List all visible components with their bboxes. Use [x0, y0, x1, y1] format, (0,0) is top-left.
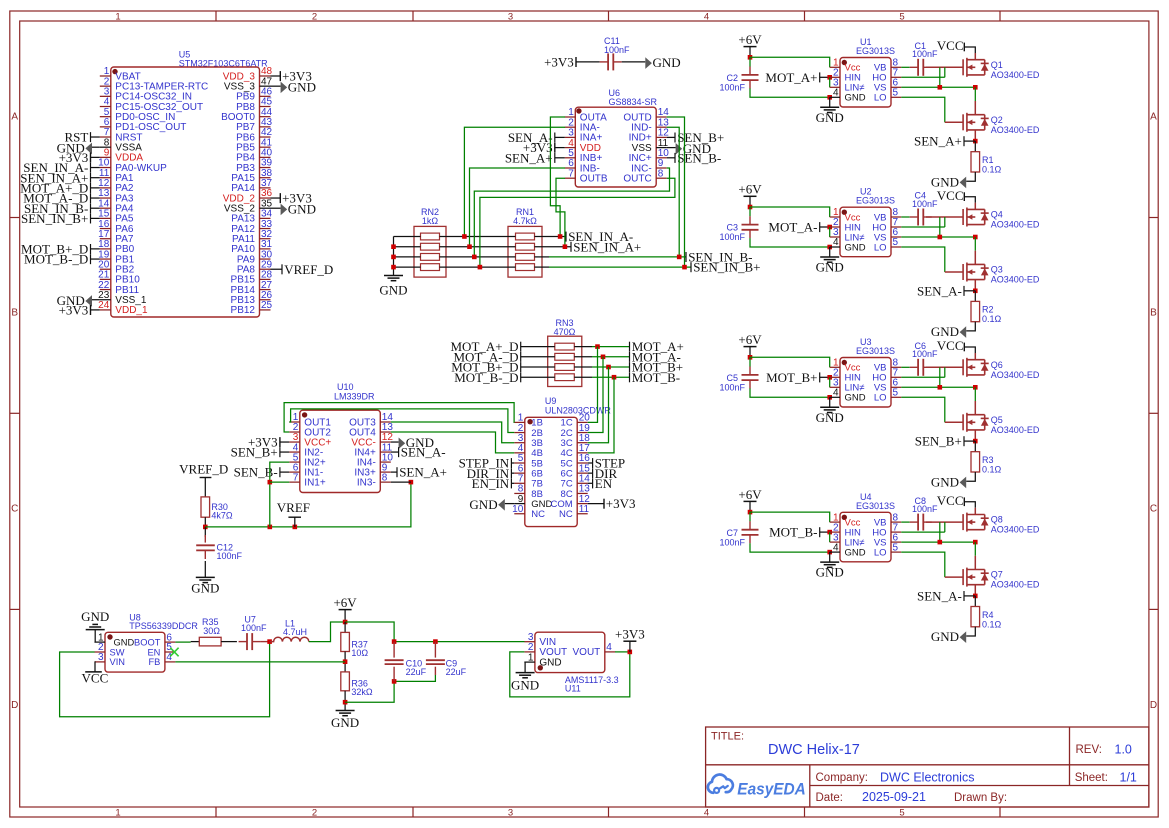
svg-text:100nF: 100nF — [912, 349, 938, 359]
wire FB to divider — [175, 661, 345, 663]
svg-text:24: 24 — [98, 300, 110, 311]
svg-text:4: 4 — [606, 642, 612, 653]
svg-text:NC: NC — [531, 509, 545, 520]
+3V3 flag at U10 pin3 — [280, 441, 289, 443]
ground flag at U9 pin9 — [505, 503, 515, 505]
wires RN3 rows down to U9 1C-4C — [588, 347, 598, 423]
svg-text:AO3400-ED: AO3400-ED — [991, 125, 1040, 135]
wire U10 IN2+/IN1+ to VREF — [270, 462, 290, 527]
net label MOT_B- — [820, 531, 830, 533]
net label SEN_IN_A+ — [570, 242, 572, 252]
svg-text:+6V: +6V — [738, 487, 762, 502]
net label VREF_D at U5 pin29 — [271, 268, 283, 270]
svg-text:SEN_A-: SEN_A- — [917, 283, 962, 298]
svg-text:100nF: 100nF — [912, 504, 938, 514]
wire U6 OUTA to row1 — [550, 117, 565, 237]
svg-text:C3: C3 — [726, 223, 738, 233]
svg-text:VCC: VCC — [937, 338, 964, 353]
wire U6 IND- to row3 — [667, 127, 680, 257]
svg-text:Q1: Q1 — [991, 60, 1003, 70]
junction dots on left bus — [391, 244, 396, 249]
wire VS line — [901, 541, 975, 543]
transistor Q4 AO3400-ED high side — [962, 209, 964, 225]
+3V3 flag at U9 pin12 — [588, 503, 604, 505]
wire U10 IN1+ junction — [270, 481, 290, 483]
transistor Q7 AO3400-ED low side — [962, 569, 964, 585]
svg-text:BOOT: BOOT — [134, 637, 161, 647]
net label SEN_A+ at U6 pin5 — [555, 157, 565, 159]
net label MOT_B-_D at U5 pin19 — [91, 258, 100, 260]
svg-text:SW: SW — [110, 647, 125, 657]
wire VREF_D to R30 — [204, 478, 206, 497]
svg-text:D: D — [1150, 700, 1157, 711]
wire VS line — [901, 386, 975, 388]
svg-text:+6V: +6V — [738, 332, 762, 347]
svg-text:GND: GND — [931, 474, 959, 489]
junction at SW node — [267, 639, 272, 644]
wire U11 pin4 to +3V3 node — [615, 651, 630, 653]
resistor R3 0.1Ohm — [974, 441, 976, 452]
net label SEN_B- at U10 pin6 — [280, 471, 289, 473]
svg-text:Company:: Company: — [816, 772, 868, 784]
net label MOT_A+ — [629, 342, 631, 352]
svg-text:GND: GND — [816, 260, 844, 275]
svg-text:TPS56339DDCR: TPS56339DDCR — [129, 621, 198, 631]
svg-text:TITLE:: TITLE: — [711, 731, 744, 743]
svg-text:Sheet:: Sheet: — [1075, 772, 1108, 784]
svg-text:R3: R3 — [982, 455, 994, 465]
transistor Q8 AO3400-ED high side — [962, 514, 964, 530]
svg-text:7: 7 — [293, 472, 299, 483]
svg-text:22uF: 22uF — [406, 667, 427, 677]
ground flag below R2 — [966, 322, 975, 331]
svg-text:Q8: Q8 — [991, 515, 1003, 525]
svg-text:4.7kΩ: 4.7kΩ — [513, 216, 537, 226]
svg-text:GND: GND — [845, 547, 866, 558]
resistor R36 32kOhm — [341, 672, 350, 691]
wire HO to high-side gate — [901, 226, 945, 228]
svg-text:GND: GND — [931, 629, 959, 644]
net label SEN_IN_A+ at U5 pin11 — [91, 177, 100, 179]
net label SEN_IN_B- — [685, 252, 687, 262]
svg-text:4k7Ω: 4k7Ω — [211, 511, 233, 521]
wire RN3 row to MOT_A+ — [592, 346, 630, 348]
svg-text:8: 8 — [382, 472, 388, 483]
svg-text:GND: GND — [816, 110, 844, 125]
svg-text:SEN_A+: SEN_A+ — [399, 465, 447, 480]
svg-text:+6V: +6V — [738, 182, 762, 197]
svg-text:U11: U11 — [565, 684, 581, 694]
svg-text:VDD_1: VDD_1 — [115, 305, 148, 316]
svg-text:Q4: Q4 — [991, 210, 1003, 220]
svg-text:32kΩ: 32kΩ — [351, 687, 373, 697]
svg-text:AO3400-ED: AO3400-ED — [991, 70, 1040, 80]
svg-text:SEN_IN_A+: SEN_IN_A+ — [573, 239, 641, 254]
resistor R37 10Ohm — [344, 622, 346, 632]
capacitor C12 100nF — [204, 535, 206, 543]
svg-text:D: D — [11, 700, 18, 711]
net label RST — [91, 136, 100, 138]
net label EN at U9 pin14 — [588, 482, 593, 484]
net label SEN_IN_A- at U5 pin10 — [91, 167, 100, 169]
svg-text:VCC: VCC — [937, 38, 964, 53]
net label SEN_A- — [964, 290, 975, 292]
ground below U2 pin4 — [829, 247, 831, 257]
svg-text:C: C — [11, 503, 18, 514]
svg-text:100nF: 100nF — [241, 623, 267, 633]
svg-text:GND: GND — [191, 581, 219, 596]
ground flag at U10 pin12 — [391, 441, 399, 443]
svg-text:LO: LO — [874, 547, 887, 558]
svg-text:U9: U9 — [545, 396, 557, 406]
EasyEDA logo — [708, 775, 733, 793]
svg-text:GND: GND — [288, 201, 316, 216]
wire SEN_IN_B- row3 green — [549, 256, 686, 258]
svg-text:MOT_A-: MOT_A- — [768, 220, 817, 235]
resistor R4 0.1Ohm — [974, 596, 976, 607]
svg-text:3: 3 — [508, 11, 513, 22]
svg-text:100nF: 100nF — [720, 537, 746, 547]
net label SEN_A+ — [964, 140, 975, 142]
svg-text:A: A — [1150, 111, 1157, 122]
wire +6V rail to VIN of U11 — [345, 622, 394, 642]
svg-text:+3V3: +3V3 — [615, 626, 645, 641]
svg-text:3: 3 — [98, 652, 104, 663]
svg-text:100nF: 100nF — [720, 83, 746, 93]
wire VS line — [901, 86, 975, 88]
regulator U11 AMS1117-3.3 — [535, 632, 605, 672]
wire LO to low-side gate — [901, 97, 945, 122]
svg-text:EN: EN — [595, 476, 613, 491]
svg-text:SEN_B+: SEN_B+ — [915, 434, 962, 449]
wire switch node — [974, 387, 976, 401]
svg-text:4: 4 — [704, 807, 709, 818]
wire U10 OUT3 to U9 3B — [391, 422, 515, 443]
svg-text:GND: GND — [845, 242, 866, 253]
svg-text:LO: LO — [874, 393, 887, 404]
svg-text:SEN_B+: SEN_B+ — [231, 445, 278, 460]
ground flag at U5 pin47 — [271, 85, 281, 87]
wire RN3 row to MOT_A- — [592, 356, 630, 358]
svg-text:SEN_A-: SEN_A- — [917, 589, 962, 604]
wire bottom of C10/C9 to ground rail — [345, 681, 394, 702]
svg-text:0.1Ω: 0.1Ω — [982, 314, 1002, 324]
wire MOT_B+ to LIN pin3 — [829, 377, 831, 387]
svg-text:8: 8 — [658, 168, 664, 179]
svg-text:VCC: VCC — [82, 671, 109, 686]
svg-text:4.7uH: 4.7uH — [283, 627, 307, 637]
svg-text:VIN: VIN — [110, 657, 126, 667]
svg-text:+6V: +6V — [738, 32, 762, 47]
svg-text:2: 2 — [312, 11, 317, 22]
wire R30 to VREF node — [204, 517, 206, 527]
svg-text:EG3013S: EG3013S — [856, 501, 895, 511]
svg-text:GND: GND — [114, 637, 135, 647]
wire U6 OUTC to row4 — [480, 178, 675, 267]
transistor Q5 AO3400-ED low side — [962, 414, 964, 430]
svg-text:0.1Ω: 0.1Ω — [982, 165, 1002, 175]
svg-text:Q3: Q3 — [991, 265, 1003, 275]
svg-text:4: 4 — [704, 11, 709, 22]
+3V3 flag at U5 pin24 — [91, 309, 100, 311]
svg-text:100nF: 100nF — [912, 49, 938, 59]
svg-text:VREF: VREF — [277, 500, 310, 515]
svg-text:10Ω: 10Ω — [351, 648, 368, 658]
+3V3 flag at U5 pin36 — [271, 197, 281, 199]
svg-text:2025-09-21: 2025-09-21 — [862, 790, 926, 804]
svg-text:GND: GND — [511, 678, 539, 693]
svg-text:100nF: 100nF — [217, 551, 243, 561]
svg-text:Q2: Q2 — [991, 115, 1003, 125]
net label SEN_B+ at U10 pin4 — [280, 451, 289, 453]
svg-text:VOUT: VOUT — [573, 647, 601, 658]
svg-text:FB: FB — [149, 657, 161, 667]
wire U6 OUTD to row4 — [667, 117, 685, 267]
svg-text:4: 4 — [166, 652, 172, 663]
svg-text:5: 5 — [893, 237, 899, 248]
svg-text:OUTC: OUTC — [623, 174, 651, 185]
svg-text:100nF: 100nF — [720, 232, 746, 242]
wire U6 OUTB to row2 — [556, 178, 565, 247]
svg-text:R2: R2 — [982, 305, 994, 315]
resistor R1 0.1Ohm — [974, 141, 976, 152]
ground flag at U5 pin35 — [271, 207, 281, 209]
net label SEN_IN_A- — [565, 232, 567, 242]
net label STEP at U9 pin16 — [588, 462, 593, 464]
svg-text:EN: EN — [147, 647, 160, 657]
net label SEN_A- at U6 pin3 — [555, 136, 565, 138]
ground at U11 pin1 — [523, 662, 526, 673]
net label MOT_B- — [629, 372, 631, 382]
svg-text:AO3400-ED: AO3400-ED — [991, 275, 1040, 285]
resistor R2 0.1Ohm — [974, 291, 976, 302]
svg-text:22uF: 22uF — [446, 667, 467, 677]
svg-text:U10: U10 — [337, 382, 354, 392]
wire HO to high-side gate — [901, 531, 945, 533]
wire rows into RN2/RN1 — [394, 236, 421, 238]
net label SEN_B+ at U6 pin12 — [667, 136, 675, 138]
svg-text:+6V: +6V — [333, 595, 357, 610]
svg-text:GND: GND — [331, 715, 359, 730]
svg-text:EasyEDA: EasyEDA — [737, 779, 806, 798]
svg-text:5: 5 — [899, 11, 904, 22]
wire LO to low-side gate — [901, 397, 945, 422]
wire U10 OUT2 to U9 1B — [284, 403, 514, 432]
wire U6 INB- to row2 — [470, 168, 566, 247]
wire switch node — [974, 87, 976, 101]
wire LO to low-side gate — [901, 247, 945, 272]
svg-text:GND: GND — [816, 565, 844, 580]
svg-text:Q7: Q7 — [991, 570, 1003, 580]
svg-text:LM339DR: LM339DR — [334, 392, 375, 402]
net label SEN_IN_B+ — [690, 262, 692, 272]
svg-text:DWC Helix-17: DWC Helix-17 — [768, 742, 860, 758]
svg-text:MOT_B-: MOT_B- — [769, 525, 817, 540]
svg-text:30Ω: 30Ω — [203, 626, 220, 636]
net label SEN_IN_B- at U5 pin14 — [91, 207, 100, 209]
transistor Q2 AO3400-ED low side — [962, 114, 964, 130]
net label SEN_A+ at U10 pin9 — [391, 471, 397, 473]
net label MOT_B+_D — [521, 366, 555, 368]
net label EN_IN at U9 pin7 — [511, 482, 514, 484]
net label STEP_IN at U9 pin5 — [511, 462, 514, 464]
svg-text:AO3400-ED: AO3400-ED — [991, 525, 1040, 535]
svg-text:NC: NC — [559, 509, 573, 520]
wire U6 INA- to row1 — [464, 127, 565, 236]
ground below U3 pin4 — [829, 397, 831, 407]
transistor Q6 AO3400-ED high side — [962, 359, 964, 375]
svg-text:C7: C7 — [726, 528, 738, 538]
wire U10 pin8 stub extension — [391, 481, 411, 483]
wire switch node — [974, 542, 976, 556]
svg-text:LO: LO — [874, 93, 887, 104]
net label DIR_IN at U9 pin6 — [511, 472, 514, 474]
wire +6V to U1 Vcc pin1 — [750, 57, 830, 67]
svg-text:IN1+: IN1+ — [304, 477, 326, 488]
wire VREF rail — [205, 482, 411, 527]
net label MOT_A+_D — [521, 346, 555, 348]
svg-text:5: 5 — [899, 807, 904, 818]
svg-text:1: 1 — [528, 652, 534, 663]
ground below C12 — [196, 576, 215, 578]
svg-text:0.1Ω: 0.1Ω — [982, 619, 1002, 629]
svg-text:Drawn By:: Drawn By: — [954, 792, 1007, 804]
svg-text:AO3400-ED: AO3400-ED — [991, 370, 1040, 380]
svg-text:GND: GND — [845, 93, 866, 104]
svg-text:SEN_A+: SEN_A+ — [914, 134, 962, 149]
svg-text:1: 1 — [115, 807, 120, 818]
ground flag at U5 pin23 — [92, 299, 100, 301]
no-connect X at U8 EN — [170, 648, 178, 657]
svg-text:VREF_D: VREF_D — [179, 462, 228, 477]
resistor R30 4k7 — [201, 497, 210, 517]
svg-text:10: 10 — [512, 504, 524, 515]
ground above U8 pin1 — [94, 641, 97, 643]
wire U11 VOUT loop to +3V3 — [510, 652, 630, 697]
svg-text:Q6: Q6 — [991, 360, 1003, 370]
wire switch node — [974, 237, 976, 251]
svg-text:R4: R4 — [982, 610, 994, 620]
wire C12 to ground — [204, 561, 206, 577]
wire MOT_A+ to LIN pin3 — [829, 77, 831, 87]
svg-text:25: 25 — [261, 300, 273, 311]
svg-text:11: 11 — [579, 504, 590, 515]
title block — [706, 727, 1149, 807]
svg-text:GND: GND — [653, 55, 681, 70]
svg-text:GND: GND — [288, 79, 316, 94]
+3V3 flag at U5 pin48 — [271, 75, 281, 77]
ground flag below R1 — [966, 172, 975, 181]
svg-text:C2: C2 — [726, 73, 738, 83]
+3V3 flag at U6 pin4 — [555, 147, 565, 149]
net label MOT_B+ — [629, 362, 631, 372]
+3V3 flag at U5 pin9 — [91, 156, 100, 158]
wire HO to high-side gate — [901, 376, 945, 378]
svg-text:MOT_B+: MOT_B+ — [766, 370, 817, 385]
svg-text:SEN_IN_B+: SEN_IN_B+ — [21, 211, 88, 226]
svg-text:100nF: 100nF — [720, 383, 746, 393]
svg-text:+3V3: +3V3 — [606, 496, 636, 511]
svg-text:A: A — [11, 111, 18, 122]
net label MOT_A- — [820, 226, 830, 228]
svg-text:MOT_B-_D: MOT_B-_D — [24, 252, 88, 267]
net label MOT_A+_D at U5 pin12 — [91, 187, 100, 189]
ground below U1 pin4 — [829, 97, 831, 107]
svg-text:4: 4 — [833, 88, 839, 99]
svg-text:IN3-: IN3- — [357, 477, 376, 488]
VCC flag below U8 pin3 — [94, 662, 96, 672]
svg-text:4: 4 — [833, 237, 839, 248]
junction at U10 pin8 — [409, 480, 414, 485]
wire VS line — [901, 236, 975, 238]
net label DIR at U9 pin15 — [588, 472, 593, 474]
svg-text:GND: GND — [379, 283, 407, 298]
svg-text:GND: GND — [469, 497, 497, 512]
svg-text:OUTB: OUTB — [580, 174, 608, 185]
svg-text:C5: C5 — [726, 373, 738, 383]
svg-text:3: 3 — [508, 807, 513, 818]
ground below U4 pin4 — [829, 552, 831, 562]
svg-text:100nF: 100nF — [912, 199, 938, 209]
net label SEN_B- at U6 pin10 — [667, 157, 675, 159]
net label MOT_B+ — [820, 376, 830, 378]
ground flag at U6 pin11 — [667, 147, 676, 149]
wire U10 OUT1 to U9 2B — [289, 409, 514, 433]
wire +6V to U4 Vcc pin1 — [750, 512, 830, 522]
svg-text:MOT_B-_D: MOT_B-_D — [454, 370, 518, 385]
wire MOT_B- to LIN pin3 — [829, 532, 831, 542]
wire U6 INC- to row3 — [474, 168, 669, 257]
svg-text:1/1: 1/1 — [1120, 771, 1137, 785]
ground below RN2 bus — [384, 275, 403, 277]
wire LO to low-side gate — [901, 552, 945, 577]
ground below R36 — [336, 710, 355, 712]
svg-text:1: 1 — [115, 11, 120, 22]
net label SEN_A- — [964, 595, 975, 597]
svg-text:470Ω: 470Ω — [554, 327, 576, 337]
svg-text:SEN_B-: SEN_B- — [677, 150, 721, 165]
svg-text:DWC Electronics: DWC Electronics — [880, 770, 974, 784]
svg-text:SEN_A-: SEN_A- — [401, 445, 446, 460]
svg-text:5: 5 — [893, 542, 899, 553]
svg-text:SEN_A+: SEN_A+ — [505, 150, 553, 165]
net label SEN_B+ — [964, 440, 975, 442]
svg-text:1.0: 1.0 — [1115, 742, 1132, 756]
svg-text:4: 4 — [833, 542, 839, 553]
wire HO to high-side gate — [901, 76, 945, 78]
svg-text:GND: GND — [81, 609, 109, 624]
svg-text:GS8834-SR: GS8834-SR — [609, 97, 658, 107]
net label MOT_B+_D at U5 pin18 — [91, 248, 100, 250]
svg-text:VREF_D: VREF_D — [284, 262, 333, 277]
net label MOT_A-_D — [521, 356, 555, 358]
wire U8 BOOT to R35 — [175, 641, 190, 643]
svg-text:C: C — [1150, 503, 1157, 514]
svg-text:B: B — [1150, 308, 1157, 319]
svg-text:Q5: Q5 — [991, 415, 1003, 425]
svg-text:VCC: VCC — [937, 493, 964, 508]
svg-text:GND: GND — [931, 324, 959, 339]
net label MOT_A-_D at U5 pin13 — [91, 197, 100, 199]
svg-text:EN_IN: EN_IN — [472, 476, 510, 491]
wire VB cap to VS node — [939, 522, 941, 542]
svg-text:4: 4 — [833, 388, 839, 399]
svg-text:SEN_B-: SEN_B- — [234, 465, 278, 480]
ground flag below R4 — [966, 627, 975, 636]
net label MOT_A- — [629, 352, 631, 362]
svg-text:Date:: Date: — [816, 792, 844, 804]
wire VREF node to C12 — [204, 527, 206, 537]
